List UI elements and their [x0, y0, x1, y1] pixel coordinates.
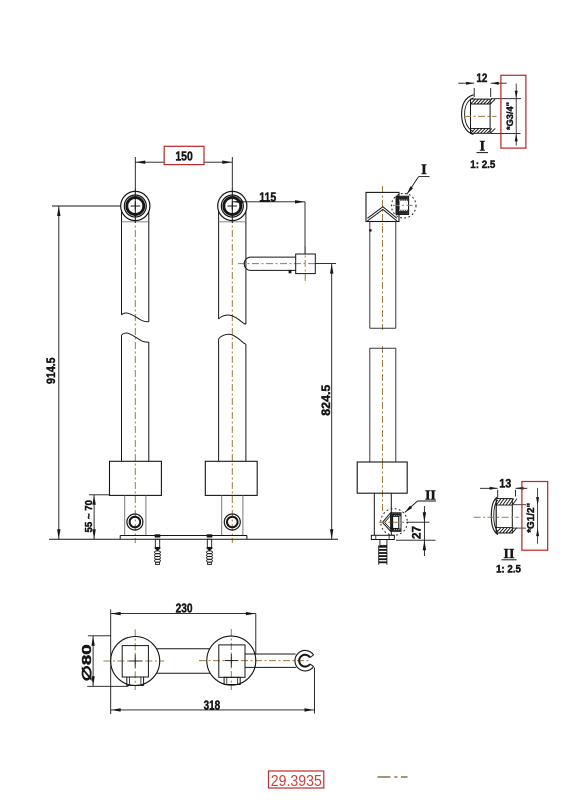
- svg-text:1: 2.5: 1: 2.5: [470, 159, 495, 171]
- svg-text:12: 12: [476, 71, 487, 85]
- svg-text:I: I: [421, 162, 427, 178]
- svg-text:55 ~ 70: 55 ~ 70: [83, 500, 95, 533]
- svg-text:230: 230: [176, 601, 193, 616]
- svg-text:1: 2.5: 1: 2.5: [496, 564, 521, 576]
- svg-text:115: 115: [259, 189, 276, 204]
- svg-text:318: 318: [204, 697, 221, 712]
- svg-text:914.5: 914.5: [46, 357, 58, 384]
- svg-text:824.5: 824.5: [319, 384, 333, 415]
- svg-text:II: II: [425, 488, 436, 503]
- svg-text:27: 27: [410, 526, 424, 539]
- svg-text:∅80: ∅80: [80, 644, 94, 681]
- svg-text:13: 13: [499, 477, 511, 491]
- svg-text:*G1/2": *G1/2": [526, 503, 537, 533]
- svg-text:150: 150: [175, 149, 193, 164]
- svg-text:29.3935: 29.3935: [271, 773, 322, 790]
- svg-text:*G3/4": *G3/4": [505, 102, 516, 130]
